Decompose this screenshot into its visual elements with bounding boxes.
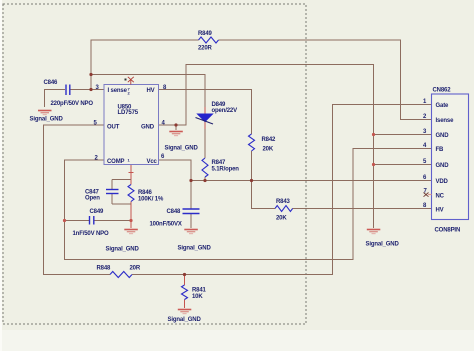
ground signal_gnd R841: [178, 310, 192, 314]
svg-text:220pF/50V NPO: 220pF/50V NPO: [51, 101, 94, 107]
svg-text:R842: R842: [262, 137, 277, 143]
wire C849 to center ground branch: [95, 220, 132, 222]
wire C847 top bar: [112, 179, 131, 181]
svg-text:10K: 10K: [192, 294, 203, 300]
resistor R842: [249, 134, 255, 151]
svg-text:Open: Open: [85, 196, 100, 202]
wire D849 cathode to R847: [204, 123, 206, 159]
svg-text:GND: GND: [436, 163, 450, 169]
node pin3 C846: [89, 88, 92, 91]
wire C848 to ground: [190, 214, 192, 229]
ground signal_gnd right GND net: [367, 230, 381, 234]
capacitor C849: [90, 216, 94, 225]
wire R641 pulldown stub top: [184, 275, 186, 286]
svg-text:CN862: CN862: [433, 88, 452, 94]
svg-text:Signal_GND: Signal_GND: [366, 242, 400, 248]
wire center red branch IC bottom pin to R846: [130, 165, 132, 185]
svg-text:Signal_GND: Signal_GND: [106, 247, 140, 253]
wire R843 to connector pin8 HV: [293, 208, 432, 210]
wire GND stub to ground symbol: [175, 125, 177, 130]
node tick on center branch: [129, 172, 134, 174]
svg-text:HV: HV: [147, 88, 155, 94]
svg-text:OUT: OUT: [107, 125, 120, 131]
wire C847 bottom bar: [112, 203, 131, 205]
wire center red branch R846 to ground: [130, 202, 132, 229]
svg-text:Signal_GND: Signal_GND: [168, 317, 202, 323]
resistor R847: [202, 158, 208, 177]
no-connect X on pin 7: [424, 193, 429, 197]
op-amp U1 : IC U850 LD7575 box: [94, 85, 168, 166]
svg-text:20K: 20K: [276, 216, 287, 222]
svg-text:100K/ 1%: 100K/ 1%: [138, 197, 164, 203]
ground signal_gnd under IC GND pin: [169, 132, 183, 136]
connector CN862: [423, 88, 469, 234]
wire VDD rail down to R843 line: [252, 181, 276, 209]
wire COMP pin2 down: [65, 149, 432, 260]
wire Isense junction to D849 branch: [91, 75, 205, 114]
wire C847 top stub: [111, 180, 113, 190]
wire C847 bottom stub: [111, 194, 113, 204]
wire OUT pin5 down to gate line: [44, 125, 111, 275]
node COMP C849: [63, 219, 66, 222]
svg-text:Signal_GND: Signal_GND: [178, 246, 212, 252]
ground signal_gnd C846: [38, 111, 52, 115]
wire R842 bottom to VDD rail: [251, 151, 253, 209]
svg-text:Isense: Isense: [436, 118, 455, 124]
node Isense branch: [89, 73, 92, 76]
resistor R846: [128, 185, 134, 202]
wire VDD rail to connector pin6: [191, 180, 432, 182]
svg-text:I sense: I sense: [108, 88, 128, 94]
resistor R848: [110, 272, 132, 278]
node GND pin3: [372, 133, 375, 136]
svg-text:20R: 20R: [130, 266, 141, 272]
svg-text:HV: HV: [436, 208, 444, 214]
svg-text:COMP: COMP: [107, 159, 125, 165]
svg-text:R846: R846: [138, 190, 153, 196]
svg-text:100nF/50VX: 100nF/50VX: [150, 222, 182, 228]
svg-text:C848: C848: [167, 209, 182, 215]
node GND pin5: [372, 163, 375, 166]
resistor R849: [199, 37, 219, 43]
svg-text:open/22V: open/22V: [212, 108, 238, 114]
svg-text:NC: NC: [436, 194, 445, 200]
wire R641 to ground: [184, 300, 186, 309]
svg-text:GND: GND: [436, 133, 450, 139]
wire Vcc pin6 to VDD rail: [159, 160, 192, 181]
svg-text:GND: GND: [141, 125, 155, 131]
wire COMP to C849: [65, 220, 90, 222]
node VDD R842 R843: [250, 179, 253, 182]
svg-text:R849: R849: [198, 31, 213, 37]
svg-text:R847: R847: [212, 160, 227, 166]
wire D849 anode stub: [204, 107, 206, 114]
wire Isense top horizontal right to connector pin2: [219, 40, 432, 120]
capacitor C846: [66, 85, 70, 96]
resistor R843: [275, 206, 293, 212]
svg-text:C849: C849: [90, 209, 105, 215]
svg-text:R843: R843: [276, 199, 291, 205]
svg-text:20K: 20K: [263, 147, 274, 153]
wire C848 branch: [190, 181, 192, 210]
wire D849 cathode stub: [204, 122, 206, 130]
svg-text:Signal_GND: Signal_GND: [165, 146, 199, 152]
wire gate line right of R848 up to connector pin1: [132, 105, 432, 275]
wire GND net to connector pin3: [374, 134, 432, 136]
svg-text:Signal_GND: Signal_GND: [30, 117, 64, 123]
svg-text:CON8PIN: CON8PIN: [435, 228, 461, 234]
wire C846 to IC pin3: [71, 89, 105, 91]
svg-text:VDD: VDD: [436, 179, 449, 185]
svg-text:R848: R848: [97, 266, 112, 272]
svg-text:R841: R841: [192, 288, 207, 294]
svg-text:LD7575: LD7575: [118, 110, 139, 116]
node VDD C848: [189, 179, 192, 182]
svg-text:1nF/50V NPO: 1nF/50V NPO: [73, 231, 110, 237]
node GND stub: [174, 123, 177, 126]
capacitor C847: [106, 190, 119, 194]
svg-text:Gate: Gate: [436, 103, 450, 109]
resistor R841: [182, 285, 188, 300]
wire HV pin8 to R842: [159, 90, 252, 135]
svg-text:220R: 220R: [198, 46, 213, 52]
diode D849: [196, 114, 214, 124]
capacitor C848: [183, 209, 200, 214]
wire pin3 Isense to C846: [45, 90, 66, 108]
svg-text:Vcc: Vcc: [147, 159, 158, 165]
svg-text:FB: FB: [436, 147, 445, 153]
ground signal_gnd center comp branch: [124, 230, 138, 234]
no-connect X on IC top pin 7: [128, 77, 134, 85]
ground signal_gnd C848: [184, 230, 198, 234]
svg-text:C846: C846: [44, 80, 59, 86]
svg-text:5.1R/open: 5.1R/open: [212, 167, 240, 173]
wire GND pin4 to ground and up: [159, 65, 374, 229]
node C849 center branch: [129, 219, 132, 222]
pin 7 stub: [428, 194, 432, 196]
wire Isense top horizontal left: [91, 40, 199, 90]
node VDD R847: [203, 179, 206, 182]
node gate pulldown: [183, 273, 186, 276]
wire R847 to VDD rail: [204, 177, 206, 181]
wire GND net to connector pin5: [374, 164, 432, 166]
junction nodes: [63, 73, 375, 276]
